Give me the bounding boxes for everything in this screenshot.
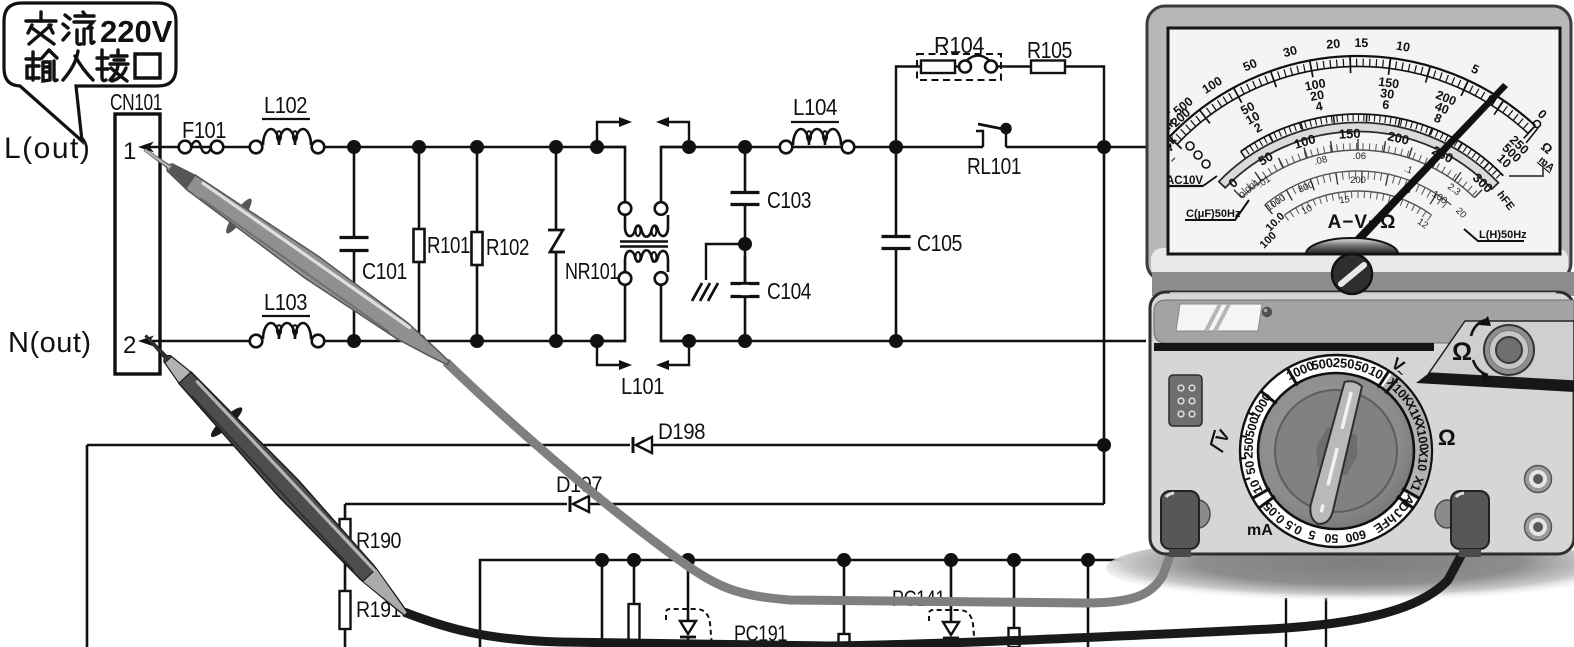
node junction x=688 (681, 553, 695, 567)
svg-text:Ω: Ω (1438, 425, 1456, 450)
node junction x=634 (627, 553, 641, 567)
dial pointer handle (1298, 377, 1375, 529)
ohm adjust knob (1484, 325, 1534, 375)
top gray band (1154, 300, 1574, 343)
svg-text:L(out): L(out) (4, 132, 91, 165)
wire stub 1326 (1325, 598, 1327, 647)
mirror band (1219, 122, 1499, 189)
svg-text:L101: L101 (621, 373, 664, 399)
node L line right junction (1097, 140, 1111, 154)
wire stub 1286 (1285, 598, 1287, 647)
varistor NR101 (549, 140, 563, 154)
svg-text:50: 50 (1242, 459, 1258, 475)
node junction x=844 (837, 553, 851, 567)
svg-text:20: 20 (1326, 37, 1341, 52)
output terminals (1525, 466, 1552, 493)
diode D197 (569, 496, 572, 512)
ohm adjust arrows (1471, 320, 1485, 336)
svg-text:D198: D198 (658, 419, 705, 444)
resistor R190 (340, 519, 351, 555)
black probe cable to right jack (404, 550, 1464, 646)
wire to R105 (997, 65, 1031, 67)
svg-text:R102: R102 (486, 234, 529, 260)
svg-text:220V: 220V (100, 14, 173, 49)
optocoupler PC191 (687, 560, 690, 621)
ground symbol (706, 244, 745, 280)
transformer L101 (590, 140, 604, 154)
relay contact RL101 (976, 131, 983, 147)
svg-text:AC10V: AC10V (1166, 175, 1203, 187)
arrow into pin 1 (143, 146, 253, 149)
ohm adjust panel (1429, 321, 1574, 381)
svg-text:L103: L103 (264, 289, 307, 315)
wire branch 951 + PC141 LED (950, 560, 953, 622)
svg-text:15: 15 (1339, 194, 1351, 206)
wire from R105 down to L line (1065, 67, 1104, 148)
node junction x=1014 (1007, 553, 1021, 567)
wire R104 branch (896, 67, 921, 148)
node junction x=1088 (1081, 553, 1095, 567)
svg-text:R105: R105 (1027, 37, 1072, 63)
resistor R101 (412, 140, 426, 154)
multimeter body lower (1150, 292, 1574, 554)
dial ohm sector shading (1381, 374, 1431, 500)
resistor branch 634 (633, 560, 636, 647)
svg-text:N(out): N(out) (8, 327, 92, 359)
V-A scale arc (1241, 114, 1504, 176)
resistor R105 (1031, 61, 1065, 74)
capacitance scale (1265, 171, 1451, 205)
wire R190 branch (344, 504, 347, 647)
fuse F101 (179, 141, 192, 154)
svg-text:150: 150 (1339, 126, 1361, 142)
svg-text:C(μF)50Hz: C(μF)50Hz (1186, 208, 1241, 220)
wire L line (324, 146, 625, 149)
svg-text:C103: C103 (767, 187, 811, 213)
needle (1335, 83, 1508, 263)
node junction at L/R104 branch (889, 140, 903, 154)
wire right vertical (1103, 147, 1106, 445)
svg-text:R104: R104 (934, 32, 985, 58)
svg-text:2: 2 (123, 332, 136, 359)
svg-text:R101: R101 (427, 232, 470, 258)
svg-text:50: 50 (1324, 531, 1339, 546)
svg-text:10: 10 (1395, 39, 1411, 55)
dial left sector ticks (1244, 478, 1250, 480)
resistor R191 (340, 591, 351, 629)
svg-text:R190: R190 (356, 528, 401, 553)
svg-text:L102: L102 (264, 92, 307, 118)
black strip under band (1154, 343, 1434, 351)
mirror window (1176, 304, 1262, 331)
indicator dot (1262, 307, 1272, 317)
inductor L103 (250, 335, 263, 348)
6-pin socket (1169, 375, 1202, 426)
ohm scale outer arcs (1169, 56, 1535, 137)
svg-text:15: 15 (1354, 36, 1368, 50)
black test probe (208, 404, 246, 440)
svg-text:250: 250 (1332, 355, 1355, 372)
rotary dial ring (1240, 355, 1432, 547)
scale left end marks (1186, 142, 1194, 150)
svg-text:Ω: Ω (1452, 338, 1472, 366)
svg-text:mA: mA (1247, 522, 1273, 539)
label L(H)50Hz (1464, 229, 1524, 241)
right probe jack (1435, 500, 1459, 528)
wire left outer vertical (86, 445, 89, 647)
resistor R102 (470, 140, 484, 154)
left probe jack (1186, 500, 1210, 528)
gray test probe (223, 196, 256, 236)
fusible resistor R104 (917, 54, 1001, 80)
wire branch 1088 (1087, 560, 1090, 647)
svg-text:RL101: RL101 (967, 153, 1021, 179)
wire N line (324, 340, 625, 343)
callout bubble AC 220V input port (4, 3, 176, 141)
capacitor C103 (738, 140, 752, 154)
wire L line right of transformer (661, 146, 983, 149)
label C(uF)50Hz (1185, 200, 1249, 220)
gray probe cable to left jack (446, 362, 1173, 603)
capacitor C104 (744, 257, 747, 283)
hinge band between sections (1152, 272, 1574, 296)
wire branch 602 (601, 560, 604, 647)
node junction x=602 (595, 553, 609, 567)
connector CN101 box (115, 114, 160, 374)
resistor branch 1014 (1013, 560, 1016, 647)
diode D198 (632, 437, 635, 453)
svg-text:C105: C105 (917, 230, 962, 256)
wire upper return line (87, 444, 630, 447)
meter screw knob (1332, 254, 1372, 294)
svg-text:CN101: CN101 (110, 89, 162, 115)
callout text 交流220V (26, 12, 56, 44)
inductor L104 (780, 141, 793, 154)
svg-text:C101: C101 (362, 258, 407, 284)
svg-text:1: 1 (123, 138, 136, 165)
svg-text:L104: L104 (793, 94, 838, 120)
multimeter body upper (display housing) (1147, 6, 1571, 281)
svg-text:.06: .06 (1353, 151, 1366, 162)
capacitor C101 (347, 140, 361, 154)
inductor L102 (250, 141, 263, 154)
svg-text:C104: C104 (767, 278, 812, 304)
svg-text:F101: F101 (182, 117, 226, 143)
display panel (1168, 28, 1560, 254)
scale right end marks (1534, 121, 1541, 128)
svg-text:X10: X10 (1415, 448, 1431, 472)
wire N line right of transformer (660, 340, 1146, 343)
svg-text:L(H)50Hz: L(H)50Hz (1479, 229, 1527, 241)
inductance scale (1285, 191, 1432, 215)
hFE scale (1242, 150, 1475, 198)
svg-text:250: 250 (1242, 437, 1257, 458)
wire second return line (345, 503, 567, 506)
callout text 输入接口 (26, 50, 57, 81)
arrow into pin 2 (143, 340, 253, 343)
svg-text:NR101: NR101 (565, 258, 619, 284)
coupling arrows L101 bottom (597, 343, 622, 365)
needle pivot cover (1306, 238, 1398, 254)
capacitor C105 (889, 334, 903, 348)
wire bottom rail (480, 560, 1135, 647)
wire branch 844 (843, 560, 846, 647)
label AC10V (1163, 172, 1203, 186)
svg-text:200: 200 (1350, 175, 1366, 186)
dial range divider marks (1287, 367, 1298, 385)
node junction x=951 (944, 553, 958, 567)
coupling arrows L101 top (597, 122, 622, 145)
